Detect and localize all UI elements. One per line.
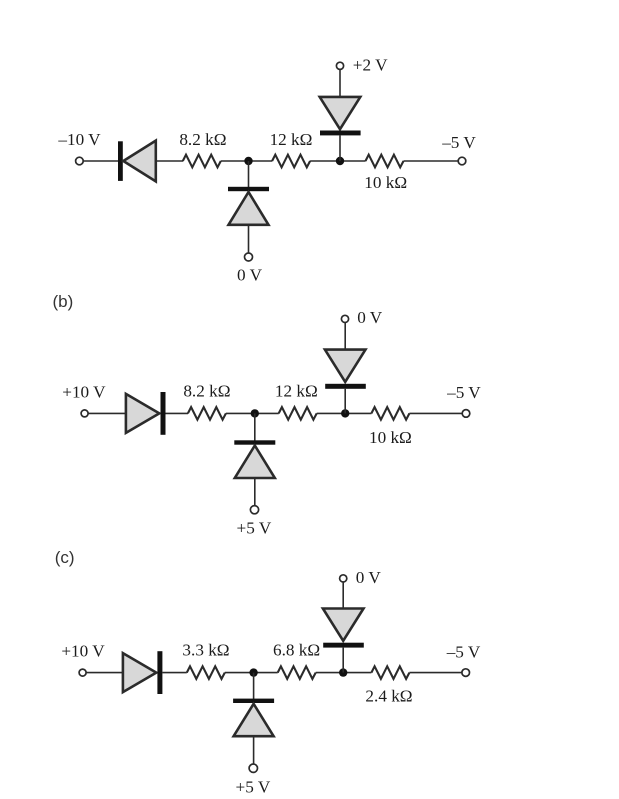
diode D9 cathode bar (horizontal) (233, 699, 274, 703)
node B junction dot, circuit 1 (336, 157, 344, 165)
svg-text:2.4 kΩ: 2.4 kΩ (365, 687, 412, 706)
svg-text:3.3 kΩ: 3.3 kΩ (182, 641, 229, 660)
svg-text:–5 V: –5 V (446, 383, 481, 402)
svg-text:+2 V: +2 V (353, 56, 388, 75)
wire: node C down to diode D6 cathode (254, 413, 256, 441)
wire: node A down to diode D3 cathode (248, 161, 250, 188)
diode D4 cathode bar (right) (161, 392, 166, 435)
svg-text:6.8 kΩ: 6.8 kΩ (273, 641, 320, 660)
node C junction dot, circuit 2 (251, 409, 259, 417)
terminal: -5 V source, circuit 1 (458, 157, 466, 165)
wire: diode D8 cathode to node F (342, 648, 344, 673)
resistor 10 kOhm, circuit 1 (366, 155, 404, 168)
svg-text:12 kΩ: 12 kΩ (275, 382, 318, 401)
svg-text:0 V: 0 V (356, 568, 382, 587)
wire: resistor 10k to -5V terminal, circuit 1 (404, 160, 459, 162)
svg-text:8.2 kΩ: 8.2 kΩ (179, 130, 226, 149)
wire: +10V terminal to diode D4 anode (88, 412, 126, 414)
node A junction dot, circuit 1 (244, 157, 252, 165)
terminal: 0 V source (245, 253, 253, 261)
terminal: +10 V source, circuit 2 (81, 410, 88, 417)
wire: resistor 8.2k to node A to resistor 12k (221, 160, 272, 162)
diode D7 body (right-pointing) (123, 653, 156, 692)
diode D2 body (down-pointing) (320, 97, 361, 129)
wire: resistor 3.3k to node E to resistor 6.8k (225, 672, 278, 674)
svg-text:0 V: 0 V (357, 308, 383, 327)
diode D5 body (down-pointing) (325, 350, 366, 382)
wire: diode D3 anode down to 0V terminal (248, 225, 250, 253)
wire: diode D5 cathode to node D (344, 389, 346, 414)
svg-text:10 kΩ: 10 kΩ (369, 428, 412, 447)
wire: resistor 8.2k to node C to resistor 12k (226, 412, 279, 414)
diode D5 cathode bar (horizontal) (325, 384, 366, 389)
terminal: +2 V source (336, 62, 343, 69)
resistor 10 kOhm, circuit 2 (371, 407, 409, 420)
wire: 0V terminal down to diode D5 anode (344, 322, 346, 350)
diode D9 body (up-pointing) (234, 704, 274, 736)
svg-text:0 V: 0 V (237, 266, 263, 285)
terminal: -5 V source, circuit 2 (462, 410, 470, 418)
svg-text:–5 V: –5 V (446, 643, 481, 662)
resistor 12 kOhm, circuit 2 (279, 407, 317, 420)
terminal: 0 V source, circuit 2 (341, 315, 348, 322)
diode D2 cathode bar (horizontal) (320, 131, 361, 136)
terminal: -10 V source, circuit 1 (76, 157, 84, 165)
node F junction dot (339, 668, 347, 676)
resistor 12 kOhm, circuit 1 (272, 155, 310, 168)
resistor 2.4 kOhm (371, 666, 409, 679)
svg-text:–5 V: –5 V (441, 133, 476, 152)
wire: diode D6 anode down to +5V terminal (254, 478, 256, 506)
resistor 3.3 kOhm (187, 666, 225, 679)
diode D3 body (up-pointing) (229, 192, 269, 225)
wire: diode D4 to resistor 8.2k, circuit 2 (166, 412, 189, 414)
wire: +10V terminal to diode D7 anode (86, 672, 123, 674)
terminal: 0 V source, circuit 3 (340, 575, 347, 582)
resistor 6.8 kOhm (278, 666, 316, 679)
resistor 8.2 kOhm, circuit 1 (183, 155, 221, 168)
wire: diode D1 to resistor 8.2k (156, 160, 183, 162)
node D junction dot, circuit 2 (341, 409, 349, 417)
diode D1 body (left-pointing) (123, 141, 156, 182)
wire: diode D9 anode down to +5V terminal (253, 736, 255, 764)
svg-text:12 kΩ: 12 kΩ (270, 130, 313, 149)
diode D8 body (down-pointing) (323, 609, 364, 641)
wire: node E down to diode D9 cathode (253, 673, 255, 700)
resistor 8.2 kOhm, circuit 2 (188, 407, 226, 420)
wire: 0V terminal down to diode D8 anode (342, 582, 344, 609)
wire: +2V terminal down to diode D2 anode (339, 69, 341, 97)
svg-text:10 kΩ: 10 kΩ (364, 173, 407, 192)
wire: resistor 6.8k to node F to resistor 2.4k (316, 672, 372, 674)
svg-text:8.2 kΩ: 8.2 kΩ (183, 382, 230, 401)
diode D8 cathode bar (horizontal) (323, 643, 364, 648)
diode D6 cathode bar (horizontal) (234, 440, 275, 444)
wire: resistor 2.4k to -5V terminal, circuit 3 (409, 672, 462, 674)
wire: -10V terminal to diode D1 cathode (83, 160, 118, 162)
wire: resistor 12k to node B to resistor 10k (310, 160, 366, 162)
diode D7 cathode bar (right) (157, 651, 162, 694)
diode D4 body (right-pointing) (126, 394, 159, 433)
terminal: +10 V source, circuit 3 (79, 669, 86, 676)
diode D1 cathode bar (left, points left) (118, 141, 123, 181)
wire: diode D2 cathode to node B (339, 135, 341, 161)
svg-text:(b): (b) (53, 292, 74, 311)
svg-text:+10 V: +10 V (61, 642, 105, 661)
wire: resistor 12k to node D to resistor 10k (317, 412, 372, 414)
wire: resistor 10k to -5V terminal, circuit 2 (409, 412, 462, 414)
diode D3 cathode bar (horizontal) (228, 187, 269, 191)
terminal: -5 V source, circuit 3 (462, 669, 470, 677)
diode D6 body (up-pointing) (235, 446, 275, 479)
terminal: +5 V source, circuit 2 (250, 506, 258, 514)
terminal: +5 V source, circuit 3 (249, 764, 257, 772)
node E junction dot (249, 668, 257, 676)
svg-text:–10 V: –10 V (57, 130, 101, 149)
svg-text:+5 V: +5 V (237, 518, 272, 537)
wire: diode D7 to resistor 3.3k (162, 672, 186, 674)
svg-text:+10 V: +10 V (62, 383, 106, 402)
svg-text:+5 V: +5 V (236, 778, 271, 797)
svg-text:(c): (c) (55, 548, 75, 567)
